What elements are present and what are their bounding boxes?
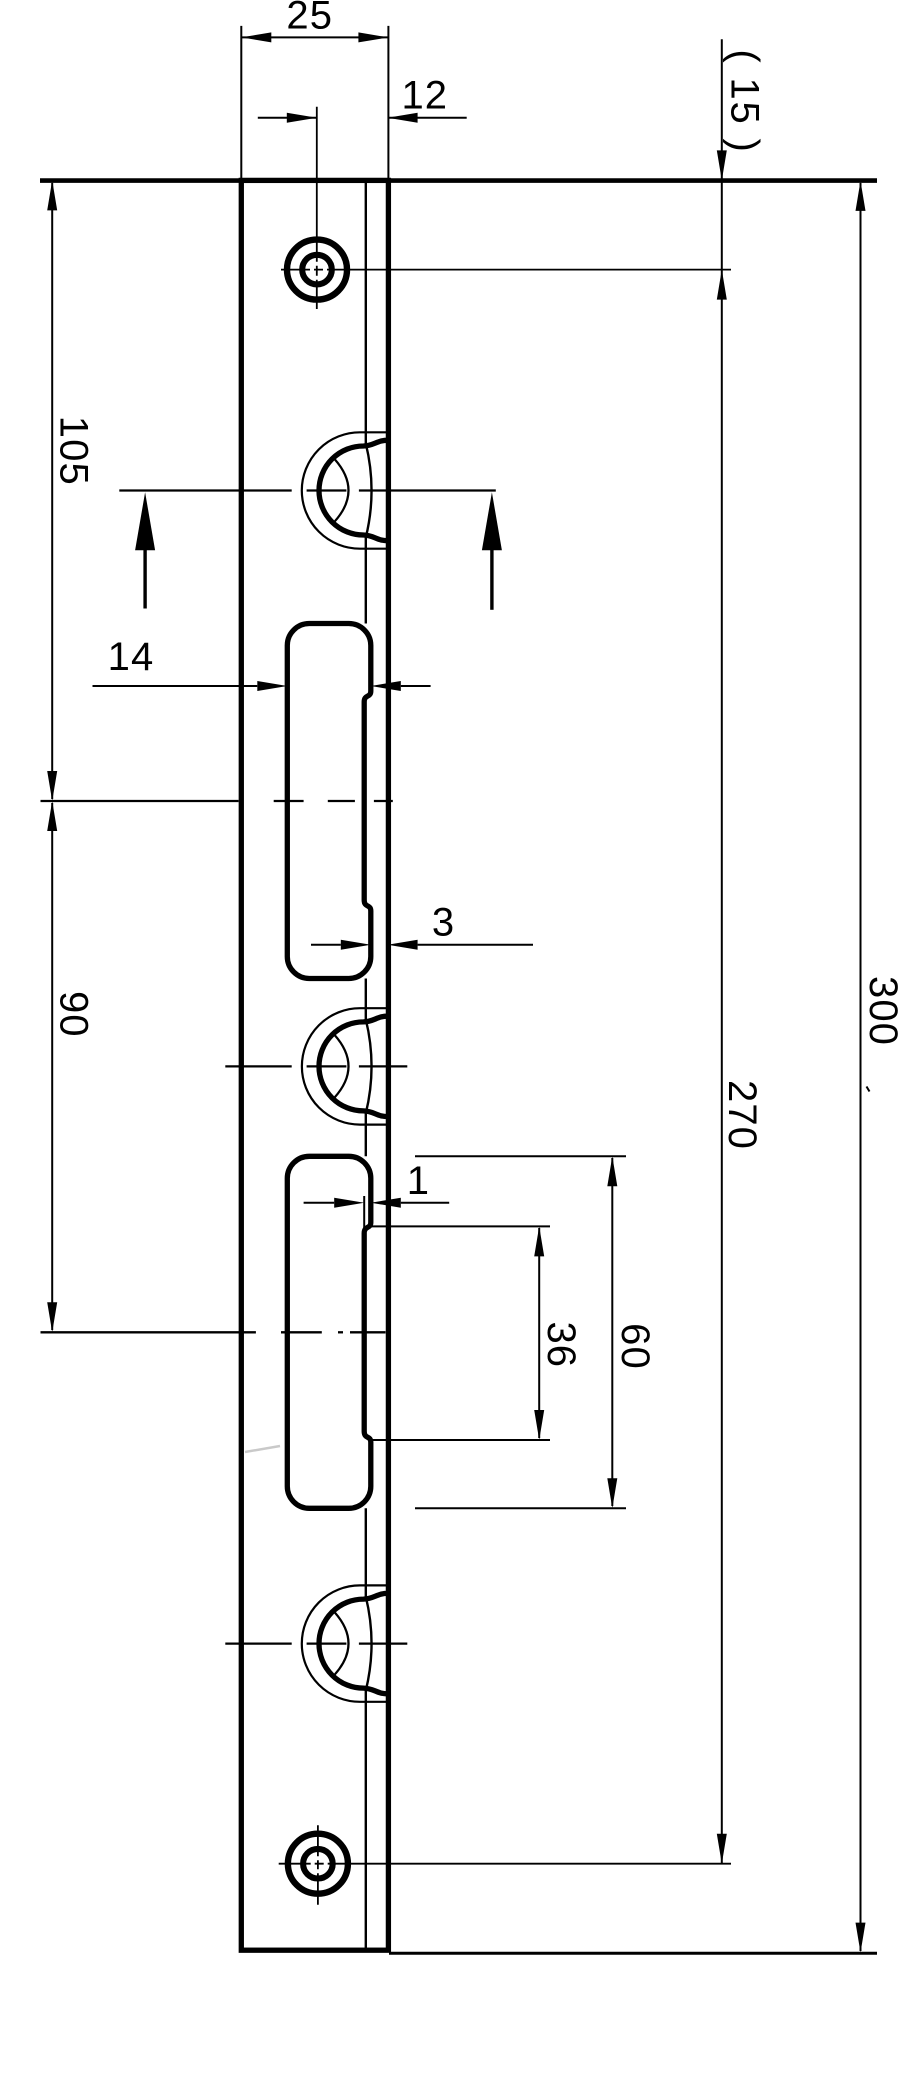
dimension 105	[47, 180, 95, 801]
latch 2 centerline	[225, 1065, 291, 1067]
dimension 36 (inset length)	[372, 1226, 583, 1440]
lower slot	[287, 1156, 371, 1508]
dimension (15) top hole offset	[717, 39, 767, 1863]
svg-text:12: 12	[401, 74, 448, 118]
strike plate outline	[241, 180, 388, 1950]
dimension 14 (slot width)	[93, 635, 431, 691]
svg-text:90: 90	[51, 991, 95, 1038]
bottom screw hole	[288, 1834, 348, 1894]
dimension 270 (hole spacing)	[717, 1080, 764, 1864]
upper slot	[287, 624, 371, 979]
top screw hole	[287, 240, 347, 300]
upper slot centerline	[41, 800, 239, 802]
svg-text:25: 25	[286, 0, 333, 38]
dimension 3 (lip offset)	[311, 901, 533, 950]
dimension 25 (plate width)	[241, 0, 388, 178]
svg-text:14: 14	[108, 635, 155, 679]
svg-text:105: 105	[51, 416, 95, 486]
dimension 1 (step depth)	[304, 1159, 450, 1233]
faint smudge	[245, 1446, 280, 1452]
dimension 300 (plate length)	[40, 181, 905, 1954]
latch cutout centered y=1066.4	[302, 1008, 389, 1124]
dimension 60 (slot length)	[415, 1156, 657, 1508]
latch cutout centered y=490.5	[302, 432, 389, 548]
latch cutout centered y=1643.6	[302, 1585, 389, 1701]
latch 3 centerline	[225, 1642, 291, 1644]
bottom hole centerlines	[317, 1825, 319, 1905]
svg-text:300: 300	[861, 976, 905, 1046]
dimension 12 (hole offset)	[258, 74, 467, 123]
stray speck	[867, 1087, 870, 1092]
svg-text:270: 270	[720, 1080, 764, 1150]
latch reference arrow left	[143, 550, 146, 609]
lower slot centerline	[41, 1331, 256, 1333]
latch 1 centerline	[119, 489, 291, 491]
dimension 90 (slot spacing)	[47, 801, 95, 1332]
latch reference arrow right	[490, 550, 493, 610]
svg-text:36: 36	[539, 1321, 583, 1368]
svg-text:3: 3	[432, 901, 455, 945]
svg-text:1: 1	[407, 1159, 430, 1203]
svg-text:60: 60	[613, 1323, 657, 1370]
svg-text:( 15 ): ( 15 )	[723, 49, 767, 153]
top hole centerlines	[316, 107, 318, 309]
fold line of lip	[366, 180, 372, 623]
